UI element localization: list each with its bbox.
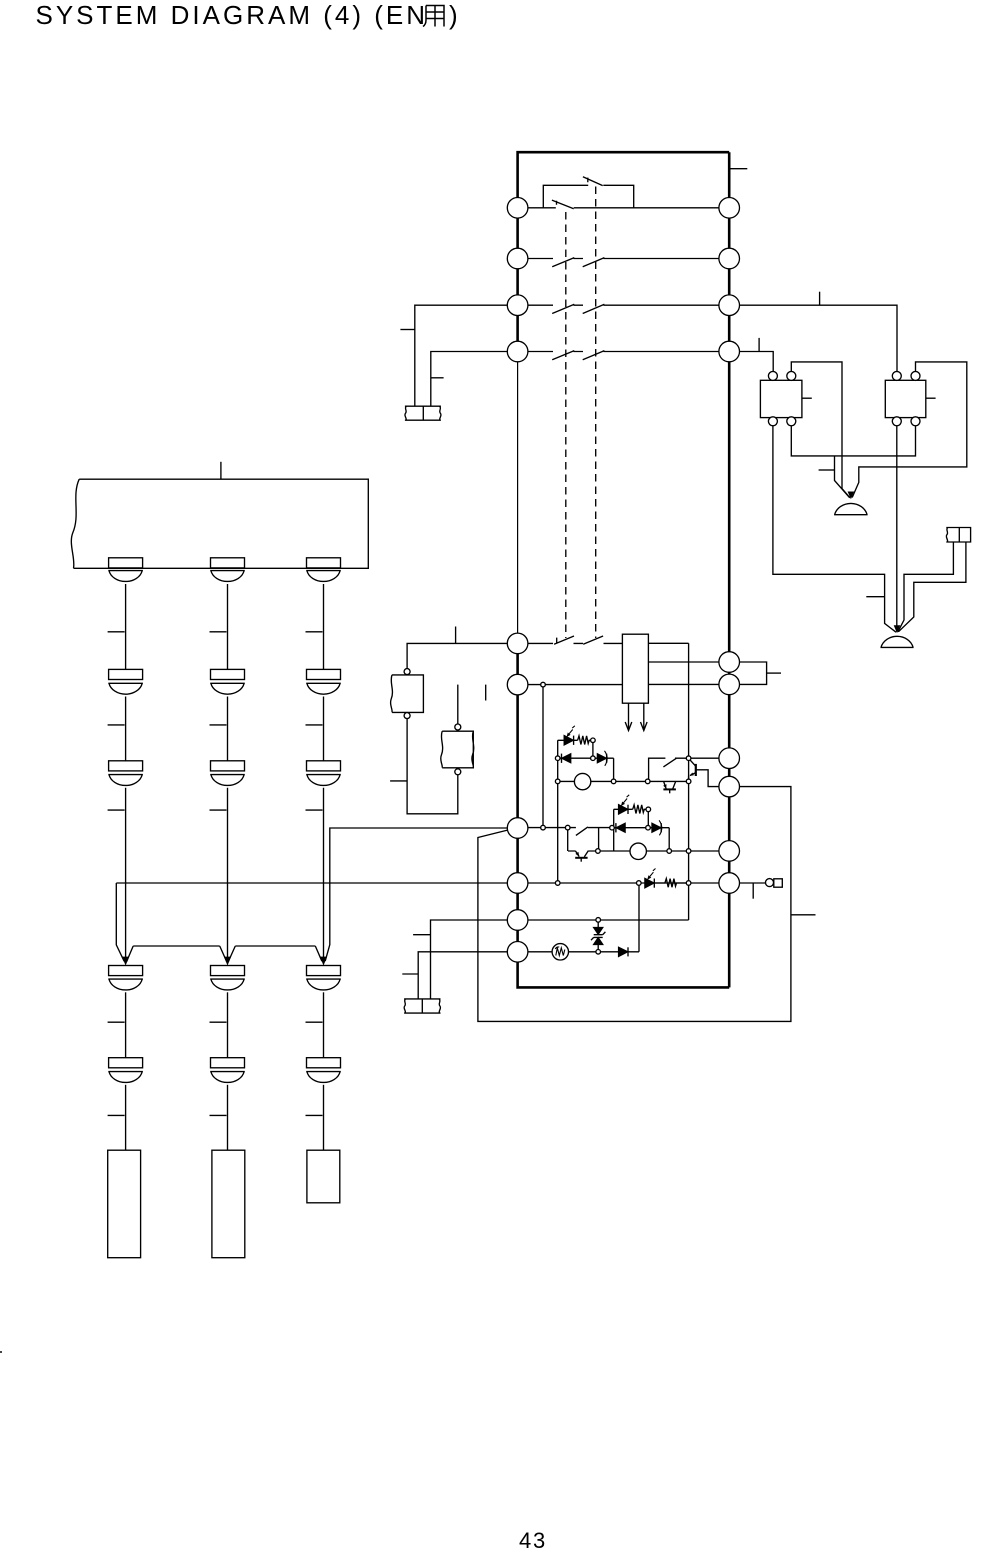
- wire pin3 right to transformer T2: [729, 305, 897, 371]
- wire T1 bottom-left to speaker SP2 left: [773, 426, 896, 632]
- wire pin1 row (y207.8): [518, 207, 730, 209]
- wire stub top right of U1: [729, 168, 747, 170]
- wire col2 segment3: [227, 788, 229, 957]
- wire col1 segment3: [125, 788, 127, 957]
- wire T2 top-right loop to speaker SP1 right: [852, 362, 967, 498]
- connector pair CN1b col2: [210, 558, 245, 582]
- amplifier block B3 (torn left edge): [71, 479, 368, 568]
- plug P1: [766, 879, 783, 888]
- mechanical linkage dashed line 2: [595, 187, 597, 639]
- connector pair CN3a col1: [108, 761, 143, 786]
- connector pair CN2b col2: [210, 669, 245, 694]
- switch SW3b: [583, 304, 605, 313]
- wire col2 segment2: [227, 697, 229, 761]
- wire col1 segment2: [125, 697, 127, 761]
- tick left of B1 wire: [390, 780, 407, 782]
- wire col3 segment2: [323, 697, 325, 761]
- tick col1 row810.1: [108, 809, 125, 811]
- wire pin row y684.6 (pin to relay K1): [518, 684, 623, 686]
- tick col3 row724.9: [306, 724, 323, 726]
- wire T2 bottom-left to speaker SP2 center: [896, 426, 898, 632]
- wire R1 to terminal, down to row758: [592, 743, 594, 759]
- tick on T1 feed wire: [758, 338, 760, 352]
- transformer T1: [760, 371, 811, 425]
- wire row 920: [518, 919, 689, 921]
- connector pair CN2a col1: [108, 669, 143, 694]
- loop wire joining right pins 662/684: [729, 662, 766, 684]
- arrowhead at SP1: [848, 492, 855, 500]
- relay K1 block: [622, 634, 648, 703]
- net V1 wire x543 (pin684 row down to row827.6): [542, 685, 544, 828]
- svg-text:SYSTEM DIAGRAM (4) (EN: SYSTEM DIAGRAM (4) (EN: [36, 0, 428, 30]
- tick col1 row1022.2: [108, 1021, 125, 1023]
- resistor R2: [633, 805, 646, 814]
- net V4 wire x639 (row883 down to row951.8): [638, 883, 640, 952]
- connector pair CN3b col2: [210, 761, 245, 786]
- wire J3 right cell to SP2: [898, 542, 966, 632]
- module B2 (torn box): [441, 724, 474, 775]
- photo-diode D4 with arrow: [619, 795, 630, 814]
- wire row828 from pin drop to col3 funnel: [325, 828, 507, 961]
- wire R2 terminal down to row 827.8: [647, 812, 649, 828]
- svg-text:): ): [449, 0, 458, 30]
- wire T1/T2 bottom-right bus to speaker SP1 left: [791, 426, 915, 498]
- connector pair CN5b col2: [210, 1058, 245, 1083]
- wire row 827.6 from pin through switch SW7: [518, 827, 612, 829]
- switch SW5a: [554, 636, 574, 644]
- wire col1 segment1: [125, 584, 127, 669]
- resistor R3: [654, 879, 688, 888]
- wire pin4 left to connector J2: [431, 352, 518, 407]
- wire row 827.7 group2: [612, 827, 669, 829]
- wire pin4 row (y351.5): [518, 351, 730, 353]
- speaker SP2 dome: [881, 636, 914, 647]
- wire pin3 row (y305.2): [518, 304, 730, 306]
- wire col3 segment5: [323, 1085, 325, 1150]
- tick on outer loop right leg: [791, 914, 816, 916]
- stray ink speck: [0, 1351, 2, 1353]
- tick on T2 feed wire: [819, 292, 821, 306]
- wire D3 down to row 781.4: [613, 758, 615, 781]
- arrows below relay K1: [625, 703, 647, 730]
- tick on J4 right wire: [413, 934, 430, 936]
- tick col3 row631.8: [306, 631, 323, 633]
- switch SW7 arm: [576, 827, 588, 836]
- wire row883 left drop to col1 funnel: [116, 883, 124, 961]
- wire D6 down to row 851: [668, 828, 670, 851]
- speaker SP1 dome: [834, 503, 868, 514]
- connector J2 (2-cell, torn bottom): [405, 406, 441, 420]
- wire pin883 to plug P1: [729, 882, 765, 884]
- wire row 758.2 right segment to pin: [649, 758, 730, 781]
- connector pair CN1c col3: [306, 558, 341, 582]
- wire relay K1 to net V3 (x688.6): [648, 642, 688, 644]
- net wire x613.7 (group2 left leg): [613, 809, 615, 851]
- diode D5 (pointing left): [616, 823, 625, 832]
- wire pin4 right to transformer T1: [729, 352, 773, 372]
- arrowhead at SP2: [894, 625, 901, 633]
- wire bypass loop above pin1: [543, 185, 633, 208]
- connector pair CN1a col1: [108, 558, 143, 582]
- title SYSTEM DIAGRAM (4) (EN用): [36, 0, 458, 30]
- wire row 851: [568, 850, 729, 852]
- switch SW1a on pin1 row: [552, 200, 574, 209]
- diode D6 (pointing right, with arc): [652, 820, 662, 835]
- IC pin circles left: [507, 198, 528, 963]
- net V2 wire x557.7 (y740.3 down to y883): [557, 740, 559, 883]
- connector pair CN5c col3: [306, 1058, 341, 1083]
- wire group2 top branch: [614, 808, 633, 810]
- tick above B3: [220, 462, 222, 479]
- diode D3 (pointing right, with arc): [597, 751, 607, 766]
- wire col2 segment1: [227, 584, 229, 669]
- connector J3 (2-cell, torn left): [946, 528, 970, 543]
- connector pair CN3c col3: [306, 761, 341, 786]
- tick col3 row810.1: [306, 809, 323, 811]
- switch SW3a: [552, 304, 574, 313]
- connector pair CN5a col1: [108, 1058, 143, 1083]
- module B1 (torn box): [391, 669, 424, 719]
- wire B1 bottom to B2 bottom: [407, 719, 458, 814]
- junction nodes (open dots): [541, 682, 691, 954]
- tick on B2 wire: [485, 685, 487, 701]
- transformer T2: [885, 371, 935, 425]
- connector pair CN2c col3: [306, 669, 341, 694]
- funnel bus wire y946: [127, 946, 322, 962]
- tick col3 row1022.2: [306, 1021, 323, 1023]
- wire col2 segment5: [227, 1085, 229, 1150]
- connector J4 (2-cell, torn sides): [404, 999, 440, 1013]
- tick on B1 wire: [455, 627, 457, 644]
- arrowhead col2 funnel: [224, 957, 231, 966]
- wire col1 segment4: [125, 992, 127, 1057]
- tick on J2 left wire: [400, 329, 414, 331]
- svg-text:43: 43: [519, 1528, 547, 1553]
- wire row 920 left to connector J4: [431, 920, 518, 999]
- tick at SP2 funnel: [866, 596, 884, 598]
- connector pair CN4c col3: [306, 966, 341, 990]
- wire relay K1 to right pin y684.4: [648, 683, 729, 685]
- photo-diode D1 with arrow: [564, 726, 575, 745]
- wire pin643 left to module B1: [407, 643, 517, 668]
- IC main block U1 outline: [516, 151, 729, 989]
- tick col2 row1115.4: [210, 1114, 227, 1116]
- arrowhead col1 funnel: [122, 957, 129, 966]
- switch SW1b on bypass loop: [583, 177, 603, 186]
- transistor Q1: [689, 759, 730, 787]
- wire J3 left cell to SP2: [898, 542, 954, 632]
- wire D1 to R1: [558, 739, 578, 741]
- wire col3 segment4: [323, 992, 325, 1057]
- switch SW6 arm: [663, 758, 676, 767]
- wire col1 segment5: [125, 1085, 127, 1150]
- diode D8: [619, 947, 628, 956]
- wire row 758.2 group1: [558, 757, 614, 759]
- outer loop wire pin827.6 to pin786.6: [478, 787, 791, 1022]
- wire pin2 row (y258.5): [518, 258, 730, 260]
- wire SW7 corner down to row 851: [598, 828, 600, 851]
- connector pair CN4a col1: [108, 966, 143, 990]
- tick on J4 left wire: [402, 973, 418, 975]
- arrowhead col3 funnel: [320, 957, 327, 966]
- transistor Q2 (inverted, on row 781.4): [663, 781, 676, 793]
- tick on J2 right wire: [431, 377, 444, 379]
- speaker box SP-C: [212, 1150, 245, 1258]
- lamp L2: [630, 843, 646, 859]
- wire row 781.4 (lamp row): [558, 780, 689, 782]
- wire relay K1 to right pin y662: [648, 661, 729, 663]
- mechanical linkage dashed line 1: [565, 212, 567, 638]
- tick col2 row1022.2: [210, 1021, 227, 1023]
- net wire x568 down from row 827.6: [567, 828, 569, 851]
- tick col3 row1115.4: [306, 1114, 323, 1116]
- net V3 wire x688.6 (y643.3 down to y920): [688, 643, 690, 920]
- wire row 883 long horizontal: [116, 882, 729, 884]
- IC pin circles right: [719, 198, 740, 894]
- lamp L3 with filament: [552, 944, 568, 960]
- lamp L1: [574, 773, 590, 789]
- switch SW4a: [552, 351, 574, 360]
- tick at SP1 funnel: [819, 469, 835, 471]
- resistor R1: [578, 736, 591, 745]
- tick col2 row810.1: [210, 809, 227, 811]
- zener pair ZD1: [591, 920, 605, 952]
- wire col3 segment1: [323, 584, 325, 669]
- speaker box SP-L: [108, 1150, 141, 1258]
- photo-diode D7 with arrow: [645, 869, 656, 888]
- transistor Q3: [575, 851, 588, 862]
- wire col3 segment3: [323, 788, 325, 957]
- wire pin row y643.4 (pin to relay K1): [518, 642, 623, 644]
- switch SW5b: [583, 636, 603, 644]
- tick col1 row1115.4: [108, 1114, 125, 1116]
- wire col2 segment4: [227, 992, 229, 1057]
- wire row 951.8: [518, 951, 639, 953]
- connector pair CN4b col2: [210, 966, 245, 990]
- tick on pin loop: [767, 672, 781, 674]
- tick col2 row631.8: [210, 631, 227, 633]
- wire T1 top-right to speaker SP1 center: [791, 362, 850, 498]
- tick on plug wire: [752, 883, 754, 899]
- switch SW4b: [583, 351, 605, 360]
- tick col2 row724.9: [210, 724, 227, 726]
- switch SW2a: [552, 258, 574, 267]
- wire B2 top to pin row 684.6: [457, 685, 459, 724]
- diode D2 (pointing left): [562, 754, 571, 763]
- wire row 951.8 left to connector J4: [418, 952, 517, 999]
- switch SW2b: [583, 258, 605, 267]
- speaker box SP-R: [307, 1150, 340, 1203]
- tick col1 row631.8: [108, 631, 125, 633]
- wire pin3 left to connector J2: [415, 305, 518, 406]
- tick col1 row724.9: [108, 724, 125, 726]
